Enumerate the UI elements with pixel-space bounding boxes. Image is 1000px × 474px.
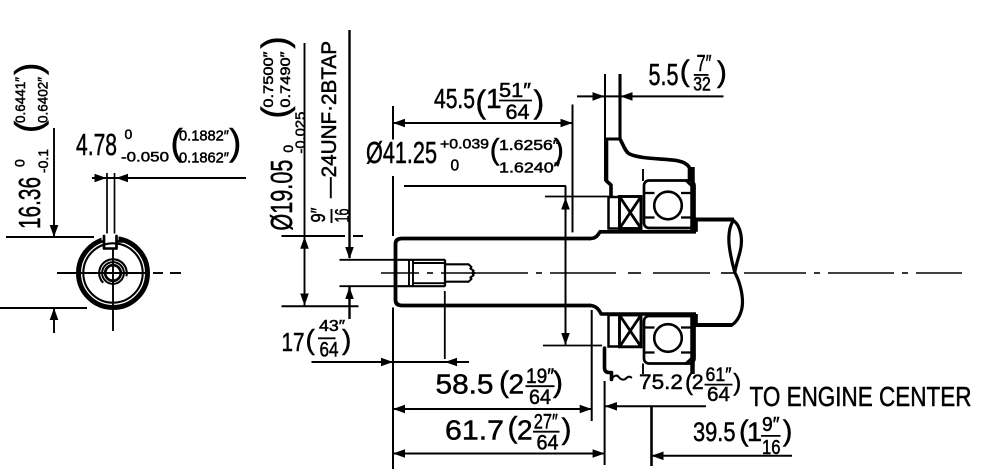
oil seal retainer upper <box>609 197 620 229</box>
svg-text:1: 1 <box>747 417 762 447</box>
pilot hole top <box>445 263 469 265</box>
61.7 right extension line <box>604 381 606 465</box>
end view vertical centerline <box>112 249 114 331</box>
75.2 dimension line <box>605 405 706 407</box>
keyway left extension line <box>106 173 108 236</box>
svg-text:0.6441″: 0.6441″ <box>12 77 28 123</box>
45.5 dimension line <box>393 122 573 124</box>
dia41.25 up arrow <box>561 198 570 210</box>
svg-text:0.6402″: 0.6402″ <box>35 77 51 123</box>
crankcase boss face upper <box>607 141 612 198</box>
shaft end face extension line upper <box>392 106 394 140</box>
ball bearing housing lower <box>644 316 695 364</box>
dia19.05 top extension line <box>282 235 346 237</box>
58.5 right extension line <box>591 310 593 421</box>
16.36 arrow up <box>50 308 59 320</box>
tap note leader line upper <box>348 30 350 258</box>
crankcase wall edge upper <box>690 167 695 230</box>
svg-text:32: 32 <box>693 75 711 96</box>
pilot hole bottom <box>445 281 469 283</box>
svg-text:9″: 9″ <box>308 208 330 223</box>
svg-text:-0.050: -0.050 <box>121 149 169 165</box>
svg-text:): ) <box>783 416 793 448</box>
shaft step lower <box>694 314 698 325</box>
svg-text:): ) <box>342 324 351 355</box>
17 right arrow <box>445 358 457 367</box>
keyway right extension line <box>114 173 116 236</box>
45.5 right arrow <box>561 119 573 128</box>
dia19.05 down arrow <box>300 294 309 306</box>
svg-text:64: 64 <box>506 101 530 124</box>
end view horizontal centerline dash <box>153 272 163 274</box>
tap leader up arrow <box>345 287 354 299</box>
svg-text:): ) <box>254 36 295 48</box>
dia41.25 top surface extension <box>545 196 613 198</box>
svg-text:Ø41.25: Ø41.25 <box>366 135 437 170</box>
end view horizontal centerline <box>57 272 146 274</box>
svg-text:5.5: 5.5 <box>649 57 679 92</box>
dia19.05 dimension line <box>304 43 306 306</box>
svg-text:9″: 9″ <box>762 414 780 436</box>
16.36 top extension line <box>6 236 94 238</box>
shaft centerline (dash-dot) <box>381 272 419 274</box>
dia41.25 leader vertical <box>565 186 567 345</box>
tapped hole thread arc (end view) <box>99 259 127 283</box>
61.7 dimension line <box>393 453 605 455</box>
dia19.05 top extension line part2 <box>353 235 363 237</box>
svg-text:): ) <box>229 122 241 163</box>
bearing housing chamfer upper <box>686 181 695 189</box>
oil seal X lower <box>620 315 642 347</box>
16.36 arrow down <box>50 225 59 237</box>
shaft break leaf <box>729 221 742 273</box>
svg-text:51″: 51″ <box>499 80 531 102</box>
tap leader down arrow <box>345 247 354 259</box>
16.36 bottom extension line <box>0 307 87 309</box>
svg-text:2: 2 <box>517 414 533 445</box>
5.5 left extension line <box>604 74 606 181</box>
svg-text:58.5: 58.5 <box>436 369 494 400</box>
svg-text:61″: 61″ <box>706 365 732 386</box>
svg-text:61.7: 61.7 <box>445 414 504 445</box>
svg-text:): ) <box>534 84 545 120</box>
keyway slot <box>102 234 119 243</box>
ball bearing housing upper <box>644 181 695 229</box>
4.78 left arrow <box>95 174 107 183</box>
svg-text:0: 0 <box>451 157 460 174</box>
svg-text:): ) <box>553 366 563 399</box>
svg-text:+0.039: +0.039 <box>440 137 489 152</box>
bearing race line lower view a <box>644 326 655 328</box>
bearing race line lower view c <box>644 351 655 353</box>
svg-text:): ) <box>717 56 727 89</box>
shaft PTO section outline <box>396 239 591 306</box>
svg-text:75.2: 75.2 <box>639 370 683 394</box>
svg-text:0: 0 <box>125 126 133 142</box>
bearing race line lower view d <box>681 351 695 353</box>
shaft outer circle (end view) <box>79 239 148 308</box>
svg-text:39.5: 39.5 <box>693 417 736 447</box>
bearing race line lower view b <box>681 326 695 328</box>
crankcase inner bore line upper <box>642 169 644 181</box>
svg-text:19″: 19″ <box>526 365 555 388</box>
58.5 left arrow <box>393 405 405 414</box>
svg-text:(: ( <box>499 366 509 399</box>
svg-text:7″: 7″ <box>697 50 712 76</box>
svg-text:2: 2 <box>692 370 704 394</box>
svg-text:): ) <box>554 133 564 166</box>
svg-text:17: 17 <box>282 327 305 357</box>
16.36 dimension line lower <box>53 309 55 333</box>
dia19.05 bottom extension line <box>282 305 359 307</box>
crankcase inner bore line lower <box>642 364 644 375</box>
svg-text:TO ENGINE CENTER: TO ENGINE CENTER <box>750 381 972 412</box>
svg-text:Ø19.05: Ø19.05 <box>264 160 299 231</box>
4.78 dimension line <box>92 177 246 179</box>
thread bottom extension line <box>340 285 397 287</box>
svg-text:2: 2 <box>509 369 525 400</box>
oil seal (X-box) upper <box>620 197 642 229</box>
tapped hole (9/16-24UNF) side view <box>398 259 446 261</box>
bearing ball lower <box>654 324 682 352</box>
shaft inner circle <box>83 243 142 302</box>
keyway slot bottom <box>104 247 117 250</box>
16.36 dimension line upper <box>53 128 55 236</box>
svg-text:16: 16 <box>762 437 781 459</box>
svg-text:0.1882″: 0.1882″ <box>179 129 229 145</box>
dia19.05 up arrow <box>300 237 309 249</box>
17 dimension line <box>312 361 470 363</box>
4.78 right arrow <box>116 174 128 183</box>
61.7 left arrow <box>393 449 405 458</box>
39.5 left arrow <box>652 452 664 461</box>
tapped hole inner circle <box>105 265 121 281</box>
bearing race line lower-right <box>681 216 695 218</box>
thread top extension line <box>340 259 397 261</box>
shaft upper fillet <box>590 232 600 239</box>
svg-text:0.7500″: 0.7500″ <box>260 52 276 108</box>
svg-text:45.5: 45.5 <box>434 83 475 114</box>
crankcase face extension line <box>618 74 621 139</box>
39.5 dimension line <box>652 455 793 457</box>
shaft end face extension line upper part2 <box>392 176 394 236</box>
svg-text:): ) <box>562 413 572 446</box>
svg-text:0: 0 <box>12 159 28 167</box>
58.5 dimension line <box>393 408 592 410</box>
75.2 left arrow <box>605 402 617 411</box>
tapped hole middle circle <box>102 262 124 284</box>
crank journal bottom <box>695 323 732 327</box>
svg-text:0.7490″: 0.7490″ <box>277 52 293 108</box>
svg-text:1.6256″: 1.6256″ <box>499 138 559 154</box>
45.5 right extension line <box>572 105 574 233</box>
oil seal (X-box) lower <box>620 315 642 347</box>
svg-text:64: 64 <box>537 432 559 455</box>
drill point <box>469 264 475 281</box>
oil seal retainer lower <box>609 315 620 347</box>
thread depth extension line <box>444 291 446 359</box>
svg-text:): ) <box>8 63 49 75</box>
svg-text:16.36: 16.36 <box>12 177 47 229</box>
svg-text:(: ( <box>680 55 690 88</box>
svg-text:16: 16 <box>332 209 354 223</box>
58.5 right arrow <box>580 405 592 414</box>
39.5 reference extension line <box>650 406 653 466</box>
svg-text:27″: 27″ <box>534 410 558 433</box>
5.5 dimension line <box>577 95 724 97</box>
bearing race line upper-right <box>681 192 695 194</box>
shaft middle section top <box>600 230 696 234</box>
thread depth line <box>444 260 446 287</box>
bearing race line upper-left <box>644 192 655 194</box>
oil seal X upper <box>620 197 642 229</box>
bearing housing chamfer lower <box>686 356 695 364</box>
svg-text:0.1862″: 0.1862″ <box>179 151 229 167</box>
crankcase wall edge lower <box>690 315 695 374</box>
svg-text:4.78: 4.78 <box>76 127 117 162</box>
shaft step upper <box>694 220 698 232</box>
dia41.25 down arrow <box>561 333 570 345</box>
crankcase outer wall upper <box>620 139 690 180</box>
break squiggle <box>612 376 632 380</box>
keyway seat left <box>97 240 104 243</box>
dia41.25 bottom surface extension <box>543 345 602 347</box>
bearing ball upper <box>654 192 682 220</box>
17 left arrow <box>381 358 393 367</box>
shaft lower fillet <box>590 306 601 314</box>
svg-text:—24UNF·2BTAP: —24UNF·2BTAP <box>318 41 341 198</box>
svg-text:(: ( <box>508 412 518 445</box>
svg-text:1.6240″: 1.6240″ <box>499 161 560 177</box>
dia41.25 leader horizontal <box>404 185 566 187</box>
bearing race line lower-left <box>644 216 655 218</box>
svg-text:64: 64 <box>529 386 551 409</box>
5.5 left arrow <box>593 92 605 101</box>
shaft end face extension line lower <box>392 308 394 470</box>
svg-text:-0.1: -0.1 <box>35 149 51 173</box>
svg-text:64: 64 <box>707 384 730 406</box>
crankcase lower wall and lip <box>605 348 612 380</box>
5.5 right arrow <box>621 92 633 101</box>
shaft middle section bottom <box>601 312 696 316</box>
crankcase boss top <box>605 138 621 141</box>
keyway seat right <box>117 240 124 243</box>
keyway slot walls <box>104 236 117 249</box>
crank journal top <box>695 218 735 222</box>
svg-text:(: ( <box>476 84 487 120</box>
end view horizontal centerline dash 2 <box>170 272 181 274</box>
svg-text:64: 64 <box>320 339 339 362</box>
svg-text:): ) <box>733 369 741 396</box>
svg-text:(: ( <box>306 324 316 355</box>
61.7 right arrow <box>593 449 605 458</box>
shaft break arc <box>732 273 743 326</box>
tap note leader line lower <box>348 287 350 319</box>
45.5 left arrow <box>393 119 405 128</box>
